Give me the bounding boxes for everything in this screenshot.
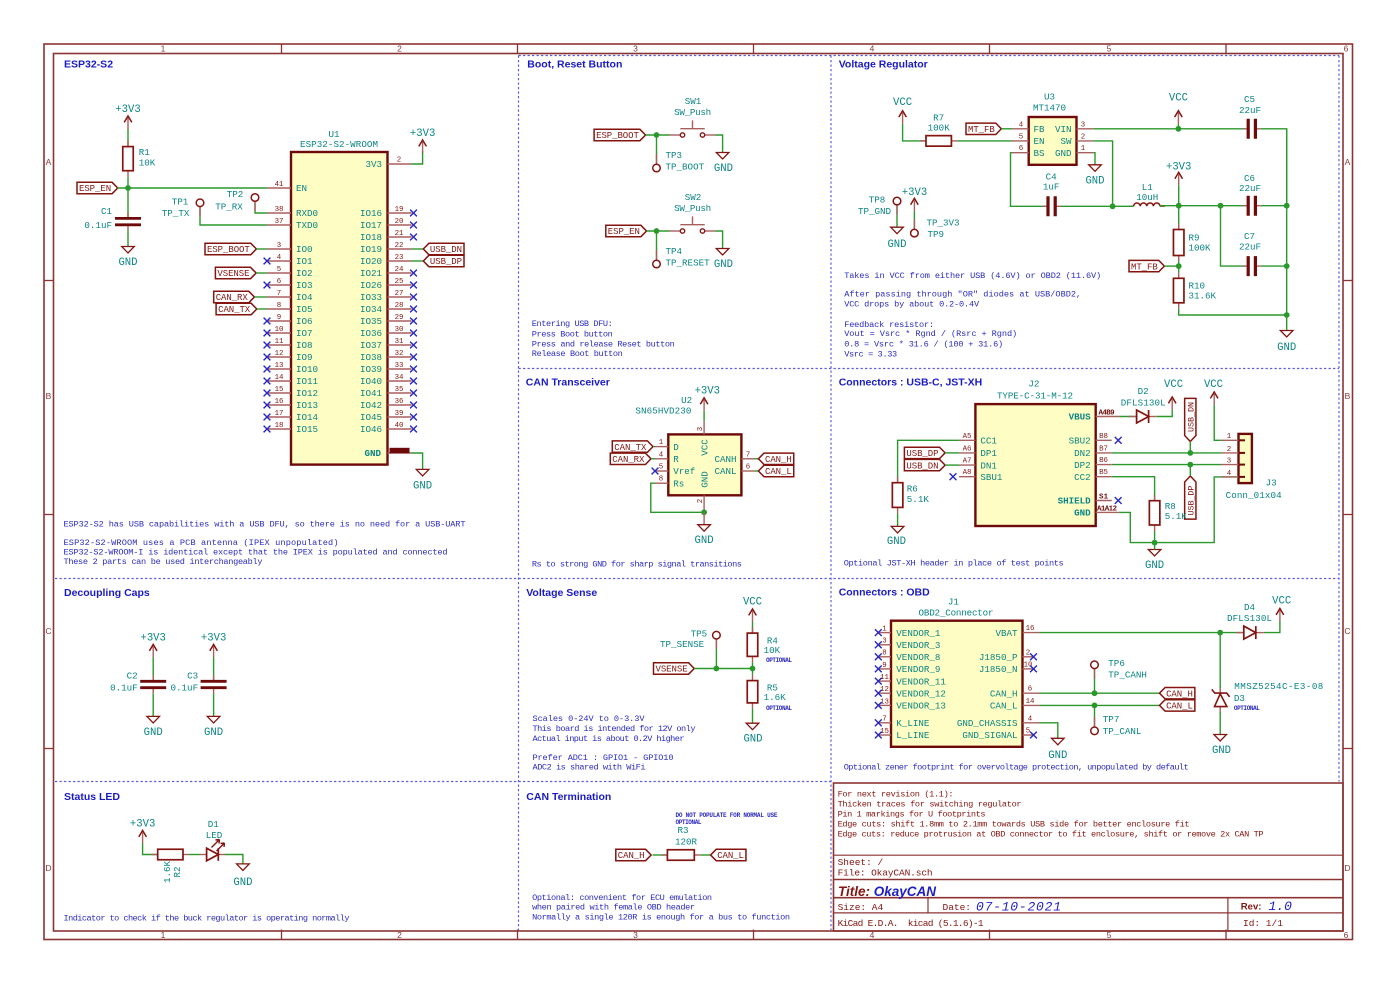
- ground GND (C2): [147, 716, 160, 723]
- U1 pin 30 IO36: [388, 332, 412, 334]
- ground GND (sense): [746, 723, 759, 730]
- wire R6 to GND: [897, 513, 899, 526]
- capacitor C1: [127, 213, 129, 219]
- svg-text:GND: GND: [204, 727, 223, 739]
- wire +3V3 to R1: [127, 129, 129, 147]
- svg-text:VCC: VCC: [893, 97, 912, 109]
- wire C7 to bus: [1261, 265, 1287, 267]
- svg-text:3: 3: [882, 638, 886, 646]
- svg-text:VCC: VCC: [1169, 92, 1188, 104]
- svg-text:USB_DP: USB_DP: [1186, 486, 1196, 516]
- svg-text:3: 3: [633, 44, 638, 54]
- svg-text:OPTIONAL: OPTIONAL: [1234, 705, 1260, 712]
- svg-text:6: 6: [1344, 930, 1349, 940]
- wire VSENSE to IO2: [256, 272, 267, 274]
- svg-text:C5: C5: [1244, 94, 1255, 105]
- svg-text:2: 2: [1026, 649, 1030, 657]
- svg-text:TP7: TP7: [1103, 714, 1120, 725]
- ground GND at U3: [1089, 165, 1102, 172]
- test point TP1: [199, 207, 201, 217]
- power +3V3 (C2): [152, 647, 154, 658]
- svg-text:GND: GND: [118, 257, 137, 269]
- svg-text:J1: J1: [948, 597, 960, 608]
- resistor R6: [897, 477, 899, 483]
- svg-text:DN1: DN1: [980, 460, 997, 471]
- resistor R3: [661, 854, 667, 856]
- svg-text:4: 4: [659, 451, 664, 459]
- svg-text:VENDOR_11: VENDOR_11: [896, 676, 946, 687]
- svg-text:6: 6: [746, 464, 750, 472]
- svg-text:IO10: IO10: [296, 364, 318, 375]
- svg-text:TP_SENSE: TP_SENSE: [660, 639, 705, 650]
- svg-text:23: 23: [395, 254, 404, 262]
- wire ESP_EN to U1 EN pin: [117, 187, 267, 189]
- U3 pin 5 EN: [1012, 140, 1029, 142]
- svg-text:J2: J2: [1028, 378, 1039, 389]
- junction ground rail R8: [1152, 540, 1158, 546]
- svg-text:25: 25: [395, 278, 404, 286]
- ground GND below U1: [416, 469, 429, 476]
- wire C4 to SW node: [1061, 205, 1113, 207]
- wire D1 to GND: [225, 855, 243, 864]
- junction C6 left node: [1218, 203, 1224, 209]
- wire D2 to VCC: [1157, 410, 1173, 417]
- svg-text:C7: C7: [1244, 231, 1255, 242]
- svg-text:9: 9: [882, 662, 886, 670]
- wire J2 GND to ground rail: [1119, 477, 1237, 543]
- svg-text:A8: A8: [963, 469, 972, 477]
- svg-text:C: C: [1344, 626, 1350, 636]
- svg-text:14: 14: [1026, 698, 1035, 706]
- svg-text:L_LINE: L_LINE: [896, 730, 930, 741]
- svg-text:6: 6: [1028, 686, 1032, 694]
- no-connect J2 SHIELD: [1115, 497, 1122, 504]
- svg-text:Vref: Vref: [673, 466, 695, 477]
- svg-text:GND: GND: [699, 471, 710, 488]
- test point TP2: [254, 201, 256, 211]
- svg-text:TP_TX: TP_TX: [162, 208, 190, 219]
- svg-text:A: A: [46, 157, 52, 167]
- svg-text:31.6K: 31.6K: [1189, 291, 1217, 302]
- svg-text:0.8 = Vsrc * 31.6 / (100 + 31.: 0.8 = Vsrc * 31.6 / (100 + 31.6): [844, 339, 1003, 349]
- inductor L1: [1129, 205, 1134, 207]
- U1 pin 6 IO3: [267, 284, 291, 286]
- J1 pin 13 VENDOR_13: [878, 704, 891, 706]
- wire ESP_BOOT to IO0: [256, 248, 267, 250]
- wire +3V3 to U2 VCC: [703, 411, 705, 421]
- wire bus down to GND: [1286, 129, 1288, 315]
- power +3V3 (TP9): [913, 200, 915, 211]
- svg-text:ESP32-S2 has USB capabilities: ESP32-S2 has USB capabilities with a USB…: [64, 520, 466, 530]
- svg-text:7: 7: [746, 451, 750, 459]
- svg-text:GND: GND: [364, 448, 381, 459]
- J1 pin 15 L_LINE: [878, 734, 891, 736]
- svg-text:B8: B8: [1099, 433, 1108, 441]
- wire CAN_RX to IO4: [254, 296, 267, 298]
- svg-text:U3: U3: [1044, 91, 1055, 102]
- svg-text:Edge cuts: reduce protrusion a: Edge cuts: reduce protrusion at OBD conn…: [838, 830, 1264, 840]
- svg-text:VBUS: VBUS: [1069, 412, 1092, 423]
- svg-text:100K: 100K: [928, 122, 951, 133]
- svg-text:TP_CANH: TP_CANH: [1108, 669, 1147, 680]
- svg-text:5: 5: [659, 464, 663, 472]
- svg-text:10: 10: [1024, 661, 1033, 669]
- svg-text:IO9: IO9: [296, 352, 313, 363]
- svg-text:Id: 1/1: Id: 1/1: [1243, 918, 1283, 929]
- U1 pin 12 IO9: [267, 356, 291, 358]
- svg-text:30: 30: [395, 326, 404, 334]
- J1 pin 16 VBAT: [1023, 632, 1040, 634]
- svg-text:DP1: DP1: [980, 448, 997, 459]
- U1 pin 28 IO34: [388, 308, 412, 310]
- U1 pin 2 3V3: [388, 163, 412, 165]
- ground GND at SW2: [716, 249, 729, 256]
- U1 pin 14 IO11: [267, 380, 291, 382]
- no-connect J1850_P: [1030, 653, 1037, 660]
- svg-text:A: A: [1345, 157, 1351, 167]
- svg-text:35: 35: [395, 386, 404, 394]
- svg-text:For next revision (1.1):: For next revision (1.1):: [838, 789, 954, 799]
- wire ESP_BOOT to SW1: [646, 134, 670, 136]
- J1 pin 4 GND_CHASSIS: [1023, 722, 1040, 724]
- svg-text:OPTIONAL: OPTIONAL: [766, 657, 792, 664]
- wire R2 to D1: [189, 854, 200, 856]
- svg-text:CAN_TX: CAN_TX: [614, 443, 647, 453]
- no-connect GND_SIGNAL: [1030, 732, 1037, 739]
- svg-text:TP1: TP1: [172, 196, 189, 207]
- svg-text:1: 1: [1227, 433, 1232, 441]
- svg-text:EN: EN: [1034, 136, 1045, 147]
- svg-text:TP5: TP5: [691, 628, 708, 639]
- svg-text:CC1: CC1: [980, 436, 997, 447]
- diode D4 DFLS130L: [1236, 632, 1244, 634]
- wire USB_DP label to node: [1189, 465, 1191, 476]
- svg-text:GND: GND: [233, 877, 252, 889]
- capacitor C4: [1043, 205, 1048, 207]
- svg-text:1.0: 1.0: [1269, 899, 1293, 914]
- svg-text:when paired with female OBD he: when paired with female OBD header: [532, 903, 695, 913]
- wire node to R5: [752, 669, 754, 675]
- wire D4 to VCC: [1264, 621, 1280, 633]
- svg-text:4: 4: [1227, 470, 1232, 478]
- power +3V3 (LED): [142, 833, 144, 844]
- svg-text:IO35: IO35: [360, 316, 382, 327]
- svg-text:GND: GND: [887, 239, 906, 251]
- svg-text:9: 9: [277, 314, 281, 322]
- svg-text:10K: 10K: [764, 645, 781, 656]
- svg-text:1: 1: [1081, 145, 1086, 153]
- svg-text:VSENSE: VSENSE: [656, 665, 688, 675]
- svg-text:TYPE-C-31-M-12: TYPE-C-31-M-12: [997, 391, 1073, 402]
- svg-text:SHIELD: SHIELD: [1058, 496, 1092, 507]
- svg-text:SW2: SW2: [685, 192, 702, 203]
- no-connect J1 L_LINE: [875, 732, 882, 739]
- wire MT_FB to U3 FB: [1001, 128, 1012, 130]
- junction U2 GND node: [701, 509, 707, 515]
- svg-text:TP_BOOT: TP_BOOT: [666, 162, 705, 173]
- junction TP5 node: [714, 666, 720, 672]
- wire node to C1: [127, 188, 129, 218]
- U1 pin 10 IO7: [267, 332, 291, 334]
- svg-text:LED: LED: [206, 830, 223, 841]
- J2 pin A6 DP1: [959, 452, 975, 454]
- svg-text:3: 3: [697, 427, 705, 431]
- U2 pin 4 R: [655, 458, 668, 460]
- junction SW/C4/L1 node: [1110, 203, 1116, 209]
- J1 pin 11 VENDOR_11: [878, 680, 891, 682]
- svg-text:VCC: VCC: [1164, 379, 1183, 391]
- U2 pin 1 D: [655, 446, 668, 448]
- svg-text:Press and release Reset button: Press and release Reset button: [532, 339, 675, 349]
- svg-text:IO16: IO16: [360, 208, 382, 219]
- svg-text:R2: R2: [172, 866, 183, 877]
- svg-text:VIN: VIN: [1055, 124, 1072, 135]
- ground GND (LED): [237, 864, 250, 871]
- power +3V3 (regulator output): [1178, 174, 1180, 185]
- svg-text:MMSZ5254C-E3-08: MMSZ5254C-E3-08: [1234, 681, 1323, 692]
- svg-text:22uF: 22uF: [1239, 105, 1261, 116]
- U1 pin 4 IO1: [267, 260, 291, 262]
- svg-text:USB_DN: USB_DN: [906, 461, 938, 471]
- svg-text:C2: C2: [127, 671, 138, 682]
- svg-text:IO18: IO18: [360, 232, 382, 243]
- svg-text:22uF: 22uF: [1239, 183, 1261, 194]
- svg-text:CANL: CANL: [714, 466, 736, 477]
- svg-text:36: 36: [395, 398, 404, 406]
- power VCC (OBD): [1279, 611, 1281, 622]
- svg-text:2: 2: [397, 930, 402, 940]
- U1 pin 15 IO12: [267, 392, 291, 394]
- LED D1: [200, 854, 207, 856]
- wire junction to TP3: [656, 135, 658, 164]
- J1 pin 12 VENDOR_12: [878, 692, 891, 694]
- svg-text:10: 10: [275, 326, 284, 334]
- U3 pin 1 GND: [1077, 152, 1094, 154]
- J1 pin 8 VENDOR_8: [878, 656, 891, 658]
- svg-text:DN2: DN2: [1074, 448, 1091, 459]
- svg-text:ESP32-S2-WROOM: ESP32-S2-WROOM: [300, 139, 378, 150]
- svg-text:+3V3: +3V3: [201, 633, 226, 645]
- capacitor C5: [1243, 128, 1248, 130]
- svg-text:TP_RESET: TP_RESET: [666, 258, 711, 269]
- wire CAN_TX to U2 D: [653, 446, 655, 448]
- svg-text:GND: GND: [1074, 508, 1091, 519]
- svg-text:27: 27: [395, 290, 404, 298]
- svg-text:1: 1: [161, 930, 166, 940]
- svg-text:After passing through "OR" dio: After passing through "OR" diodes at USB…: [844, 290, 1081, 300]
- J2 pin B6 DP2: [1096, 464, 1112, 466]
- wire C5 to right bus: [1261, 129, 1287, 206]
- power +3V3 (U1): [422, 142, 424, 153]
- svg-text:8: 8: [277, 302, 281, 310]
- svg-text:DFLS130L: DFLS130L: [1227, 613, 1272, 624]
- J2 pin A1B12 GND: [1096, 511, 1120, 513]
- svg-text:IO7: IO7: [296, 328, 313, 339]
- U1 pin 39 IO45: [388, 416, 412, 418]
- svg-text:CANH: CANH: [714, 454, 736, 465]
- wire R4 to sense node: [752, 662, 754, 668]
- ground GND (C3): [207, 716, 220, 723]
- svg-text:GND: GND: [887, 536, 906, 548]
- svg-text:IO0: IO0: [296, 244, 313, 255]
- svg-text:32: 32: [395, 350, 404, 358]
- svg-text:EN: EN: [296, 183, 307, 194]
- svg-text:1: 1: [882, 626, 887, 634]
- svg-text:CAN_H: CAN_H: [1166, 689, 1193, 699]
- wire C2 to GND: [152, 694, 154, 717]
- wire R1 to node ESP_EN: [127, 177, 129, 188]
- svg-text:CAN_L: CAN_L: [765, 467, 792, 477]
- svg-text:GND: GND: [1277, 342, 1296, 354]
- svg-text:IO37: IO37: [360, 340, 382, 351]
- J1 pin 3 VENDOR_3: [878, 644, 891, 646]
- J2 pin B5 CC2: [1096, 476, 1112, 478]
- wire U3 BS to C4: [1011, 153, 1049, 207]
- U2 pin 6 CANL: [741, 470, 754, 472]
- power +3V3 (R1 top): [127, 118, 129, 129]
- power VCC (VIN rail): [1177, 113, 1179, 124]
- svg-text:11: 11: [275, 338, 284, 346]
- svg-text:37: 37: [275, 218, 284, 226]
- wire C3 to GND: [213, 694, 215, 717]
- wire TP8 to GND: [896, 206, 898, 228]
- svg-text:K_LINE: K_LINE: [896, 718, 930, 729]
- svg-text:IO17: IO17: [360, 220, 382, 231]
- svg-text:41: 41: [275, 181, 284, 189]
- svg-text:+3V3: +3V3: [130, 818, 155, 830]
- U1 pin 20 IO17: [388, 224, 412, 226]
- svg-text:SW: SW: [1060, 136, 1072, 147]
- svg-text:D2: D2: [1138, 386, 1149, 397]
- ground GND (zener): [1214, 735, 1227, 742]
- resistor R2: [152, 854, 158, 856]
- svg-text:Pin 1 markings for U footprint: Pin 1 markings for U footprints: [838, 809, 986, 819]
- svg-text:5.1K: 5.1K: [1165, 511, 1188, 522]
- U1 pin 13 IO10: [267, 368, 291, 370]
- svg-text:A1A12: A1A12: [1097, 506, 1117, 514]
- svg-text:39: 39: [395, 410, 404, 418]
- svg-text:Edge cuts: shift 1.8mm to 2.1m: Edge cuts: shift 1.8mm to 2.1mm towards …: [838, 820, 1190, 830]
- svg-text:SW_Push: SW_Push: [674, 203, 711, 214]
- svg-text:Thicken traces for switching r: Thicken traces for switching regulator: [838, 800, 1022, 810]
- capacitor C7: [1243, 265, 1248, 267]
- svg-text:TP_CANL: TP_CANL: [1103, 726, 1142, 737]
- svg-text:Connectors : USB-C, JST-XH: Connectors : USB-C, JST-XH: [839, 376, 983, 388]
- U1 pin 35 IO41: [388, 392, 412, 394]
- svg-text:IO11: IO11: [296, 376, 319, 387]
- svg-text:13: 13: [275, 362, 284, 370]
- svg-text:7: 7: [882, 716, 886, 724]
- svg-text:IO3: IO3: [296, 280, 313, 291]
- wire +3V3 to R2: [143, 844, 158, 855]
- wire U3 SW down to node: [1093, 141, 1112, 206]
- no-connect J1 VENDOR_3: [875, 641, 882, 648]
- svg-text:GND: GND: [714, 259, 733, 271]
- no-connect J1 VENDOR_8: [875, 653, 882, 660]
- svg-text:4: 4: [870, 44, 875, 54]
- U1 pin 37 TXD0: [267, 224, 291, 226]
- wire +3V3 to C3: [213, 658, 215, 682]
- wire U1 GND to ground: [412, 453, 423, 469]
- svg-text:GND: GND: [1048, 750, 1067, 762]
- svg-text:6: 6: [1344, 44, 1349, 54]
- global label USB_DN vertical: [1185, 398, 1196, 441]
- wire junction to TP4: [656, 231, 658, 260]
- U1 pin 38 RXD0: [267, 212, 291, 214]
- resistor R8: [1154, 495, 1156, 501]
- wire CAN_L to label: [1040, 704, 1160, 706]
- wire CAN_H to R3: [653, 854, 668, 856]
- capacitor C3: [213, 676, 215, 682]
- svg-text:B: B: [46, 391, 52, 401]
- wire CC1 to R6: [898, 440, 960, 482]
- wire R8 to ground rail: [1154, 531, 1156, 543]
- svg-text:VCC: VCC: [743, 596, 762, 608]
- wire zener to GND: [1219, 633, 1221, 688]
- svg-text:1uF: 1uF: [1043, 182, 1060, 193]
- U1 pin 16 IO13: [267, 404, 291, 406]
- svg-text:R: R: [673, 454, 679, 465]
- svg-text:1: 1: [659, 439, 664, 447]
- wire L1 to +3V3 node: [1160, 205, 1245, 207]
- svg-text:Voltage Sense: Voltage Sense: [526, 587, 597, 599]
- junction VBAT/zener node: [1217, 630, 1223, 636]
- junction +3V3 output node: [1176, 203, 1182, 209]
- svg-text:MT_FB: MT_FB: [1131, 262, 1158, 272]
- U1 pin 32 IO38: [388, 356, 412, 358]
- test point TP9: [913, 219, 915, 229]
- svg-text:TP3: TP3: [666, 150, 683, 161]
- svg-text:VCC: VCC: [1204, 379, 1223, 391]
- svg-text:USB_DN: USB_DN: [430, 245, 462, 255]
- svg-text:IO45: IO45: [360, 412, 382, 423]
- U1 pin 24 IO21: [388, 272, 412, 274]
- wire USB_DP to DP1: [945, 452, 959, 454]
- U1 pin 36 IO42: [388, 404, 412, 406]
- resistor R1: [127, 141, 129, 147]
- svg-text:IO15: IO15: [296, 424, 318, 435]
- svg-text:S1: S1: [1099, 494, 1109, 502]
- svg-text:+3V3: +3V3: [695, 386, 720, 398]
- wire VSENSE to node: [694, 668, 752, 670]
- svg-text:ADC2 is shared with WiFi: ADC2 is shared with WiFi: [533, 762, 646, 772]
- svg-text:D1: D1: [208, 819, 220, 830]
- J1 pin 9 VENDOR_9: [878, 668, 891, 670]
- U3 pin 6 BS: [1012, 152, 1029, 154]
- svg-text:Date:: Date:: [943, 902, 972, 913]
- svg-text:CAN_H: CAN_H: [990, 688, 1018, 699]
- svg-text:Optional zener footprint for o: Optional zener footprint for overvoltage…: [844, 763, 1189, 773]
- U1 pin 33 IO39: [388, 368, 412, 370]
- wire +3V3 to node: [1178, 185, 1180, 205]
- svg-text:This board is intended for 12V: This board is intended for 12V only: [533, 724, 696, 734]
- svg-text:C: C: [45, 626, 51, 636]
- svg-text:0.1uF: 0.1uF: [110, 683, 138, 694]
- svg-text:ESP32-S2-WROOM uses a PCB ante: ESP32-S2-WROOM uses a PCB antenna (IPEX …: [64, 538, 339, 548]
- svg-text:Status LED: Status LED: [64, 791, 120, 803]
- wire TP6 to CAN_H: [1094, 669, 1096, 694]
- title block frame: [834, 783, 1344, 931]
- wire R10 to GND rail: [1179, 309, 1287, 315]
- svg-text:IO2: IO2: [296, 268, 313, 279]
- svg-text:CAN_RX: CAN_RX: [612, 455, 645, 465]
- global label USB_DP vertical: [1185, 476, 1196, 519]
- svg-text:CAN_TX: CAN_TX: [218, 305, 251, 315]
- svg-text:8: 8: [882, 650, 886, 658]
- svg-text:Conn_01x04: Conn_01x04: [1226, 490, 1282, 501]
- svg-text:KiCad E.D.A. kicad (5.1.6)-1: KiCad E.D.A. kicad (5.1.6)-1: [838, 918, 984, 929]
- svg-text:IO46: IO46: [360, 424, 382, 435]
